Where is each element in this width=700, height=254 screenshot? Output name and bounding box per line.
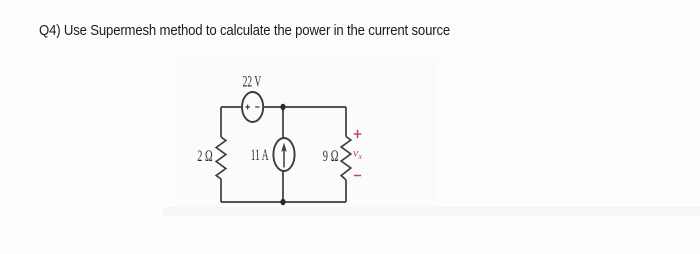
svg-text:vx: vx <box>353 146 362 162</box>
resistor 9ohm zigzag <box>341 137 351 181</box>
wire middle branch lower <box>282 172 284 203</box>
wire right vertical top <box>345 107 347 137</box>
vx plus polarity mark <box>354 130 362 139</box>
question text <box>39 22 450 39</box>
wire middle branch upper <box>282 107 284 139</box>
current source arrow <box>283 149 285 168</box>
svg-text:2 Ω: 2 Ω <box>197 148 213 165</box>
faint figure background <box>177 57 437 215</box>
svg-text:9 Ω: 9 Ω <box>323 148 339 165</box>
svg-text:11 A: 11 A <box>251 147 269 164</box>
wire right vertical bottom <box>345 180 347 202</box>
faint scan band <box>163 207 700 216</box>
resistor 2ohm zigzag <box>216 137 226 179</box>
voltage source plus sign <box>245 105 250 110</box>
node junction bottom <box>280 199 285 205</box>
node junction top <box>280 104 285 110</box>
voltage source minus sign <box>255 106 259 108</box>
wire left vertical bottom <box>220 179 222 202</box>
wire bottom <box>221 201 346 203</box>
wire top-right segment <box>264 106 347 108</box>
svg-text:22 V: 22 V <box>243 74 262 91</box>
voltage source V1 circle <box>242 92 263 122</box>
wire left vertical top <box>220 107 222 137</box>
current source I1 circle <box>273 138 294 171</box>
vx minus polarity mark <box>354 175 361 177</box>
wire top-left segment <box>221 106 242 108</box>
